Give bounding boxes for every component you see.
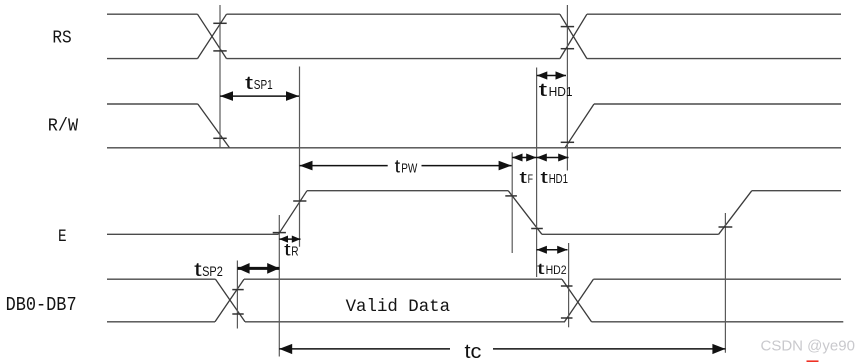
red mark bbox=[807, 360, 819, 362]
svg-text:E: E bbox=[58, 227, 67, 247]
measure line L4 DB change bbox=[236, 261, 238, 329]
DB crossover X2 falling edge bbox=[562, 279, 592, 322]
E falling edge bbox=[508, 191, 542, 235]
wire RS high rail left bbox=[107, 13, 198, 15]
wire RS low rail left bbox=[107, 58, 198, 60]
svg-text:t: t bbox=[537, 261, 545, 278]
wire DB low rail right bbox=[592, 321, 844, 323]
svg-text:DB0-DB7: DB0-DB7 bbox=[6, 294, 77, 316]
svg-text:HD2: HD2 bbox=[546, 265, 567, 277]
arrow tHD1 second bbox=[537, 157, 569, 159]
wire E low rail middle bbox=[542, 233, 719, 235]
tick E rise at L2 bbox=[293, 200, 306, 202]
measure line L3 E rise start bbox=[278, 215, 280, 357]
measure line L9 E second rise / tc end bbox=[724, 213, 726, 353]
tick DB X1 upper bbox=[232, 289, 243, 291]
svg-text:t: t bbox=[395, 156, 401, 176]
R/W rising edge bbox=[565, 104, 594, 148]
svg-text:t: t bbox=[284, 240, 291, 260]
tick RS X2 lower bbox=[561, 48, 574, 50]
arrow tHD2 bbox=[537, 249, 568, 251]
wire E high rail bbox=[307, 190, 508, 192]
arrow tSP1 bbox=[220, 95, 299, 97]
svg-text:R/W: R/W bbox=[48, 117, 78, 137]
wire E high rail right bbox=[752, 190, 841, 192]
measure line L6 E fall end bbox=[536, 68, 538, 278]
DB crossover X1 falling edge bbox=[216, 279, 246, 322]
svg-text:PW: PW bbox=[401, 161, 417, 175]
tick R/W rise bbox=[561, 141, 574, 143]
measure line L5 E fall start bbox=[511, 152, 513, 253]
measure line L1 at RS/RW change bbox=[219, 5, 221, 148]
wire RS low rail right bbox=[587, 58, 841, 60]
tick RS X2 upper bbox=[561, 26, 574, 28]
RS crossover X2 falling edge bbox=[560, 14, 587, 58]
svg-text:SP1: SP1 bbox=[254, 78, 273, 92]
measure line L7 RS second change bbox=[566, 5, 568, 171]
svg-text:HD1: HD1 bbox=[549, 172, 568, 186]
wire DB low rail left bbox=[107, 321, 215, 323]
tick DB X2 upper bbox=[561, 285, 573, 287]
RS crossover X1 falling edge bbox=[198, 14, 227, 58]
measure line L2 end of tSP1 bbox=[299, 67, 301, 247]
svg-text:t: t bbox=[245, 73, 253, 93]
DB crossover X1 rising edge bbox=[215, 279, 244, 322]
tick RS X1 lower bbox=[213, 50, 226, 52]
svg-text:t: t bbox=[539, 80, 548, 100]
measure line L8 DB second change bbox=[568, 243, 570, 327]
wire DB low rail middle bbox=[245, 321, 565, 323]
RS crossover X2 rising edge bbox=[560, 14, 587, 58]
wire RS high rail middle bbox=[227, 13, 560, 15]
svg-text:SP2: SP2 bbox=[202, 264, 223, 279]
RS crossover X1 rising edge bbox=[198, 14, 227, 58]
wire DB high rail left bbox=[107, 278, 216, 280]
wire RS low rail middle bbox=[227, 58, 560, 60]
wire R/W high rail right bbox=[594, 103, 841, 105]
wire R/W high rail left bbox=[107, 103, 198, 105]
E rising edge 2 bbox=[719, 191, 752, 235]
svg-text:t: t bbox=[540, 168, 548, 187]
E rising edge 1 bbox=[278, 191, 307, 235]
wire DB high rail middle bbox=[244, 278, 562, 280]
tick RS X1 upper bbox=[213, 22, 226, 24]
R/W falling edge bbox=[198, 104, 230, 148]
tick E fall at L6 bbox=[531, 228, 543, 230]
arrow tR bbox=[279, 238, 300, 240]
arrow tPW bbox=[300, 165, 512, 167]
arrow tF bbox=[512, 157, 536, 159]
arrow tSP2 thick bbox=[237, 267, 279, 270]
wire R/W low rail full bbox=[107, 147, 841, 149]
svg-text:t: t bbox=[519, 168, 527, 187]
tick R/W fall bbox=[213, 137, 226, 139]
svg-text:F: F bbox=[528, 172, 533, 186]
tick E rise2 at L9 bbox=[719, 226, 733, 228]
wire RS high rail right bbox=[587, 13, 841, 15]
wire E low rail left bbox=[107, 233, 278, 235]
tick DB X2 lower bbox=[561, 317, 573, 319]
arrow tc bbox=[279, 348, 725, 350]
svg-text:CSDN @ye90: CSDN @ye90 bbox=[761, 338, 855, 355]
DB crossover X2 rising edge bbox=[565, 279, 594, 322]
svg-text:HD1: HD1 bbox=[549, 85, 573, 99]
tick E low rail end bbox=[273, 232, 286, 234]
svg-text:R: R bbox=[291, 245, 298, 259]
svg-text:RS: RS bbox=[52, 28, 71, 48]
svg-text:Valid Data: Valid Data bbox=[346, 297, 451, 317]
svg-text:tc: tc bbox=[465, 341, 482, 362]
tick DB X1 lower bbox=[232, 313, 243, 315]
wire DB high rail right bbox=[593, 278, 841, 280]
tick E fall at L5 bbox=[505, 195, 517, 197]
arrow tHD1 top bbox=[537, 75, 566, 77]
